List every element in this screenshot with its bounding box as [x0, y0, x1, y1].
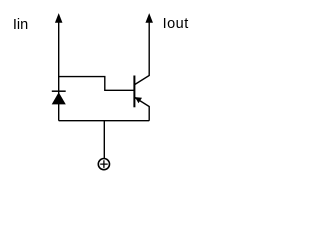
transistor Q1 collector	[135, 15, 150, 85]
diode D1 anode triangle	[52, 92, 66, 104]
wire: left vertical branch (Iin)	[58, 15, 60, 121]
wire: stub to supply terminal	[103, 121, 105, 159]
wire: node A branch to transistor base	[59, 77, 134, 91]
arrow: Iin current direction	[55, 13, 63, 23]
supply terminal (+)	[98, 159, 109, 170]
wire: bottom rail	[59, 120, 150, 122]
terminal plus sign	[100, 160, 108, 168]
diode D1 cathode bar	[52, 90, 66, 92]
transistor Q1 emitter	[135, 97, 150, 120]
arrow: Iout current direction	[145, 13, 153, 23]
diode D1	[52, 91, 66, 104]
transistor Q1 (PNP)	[134, 13, 153, 121]
terminal circle	[98, 159, 109, 170]
transistor Q1 emitter arrowhead	[135, 97, 142, 103]
svg-text:Iin: Iin	[13, 17, 28, 33]
svg-text:Iout: Iout	[163, 16, 189, 32]
transistor Q1 base bar	[133, 76, 135, 108]
